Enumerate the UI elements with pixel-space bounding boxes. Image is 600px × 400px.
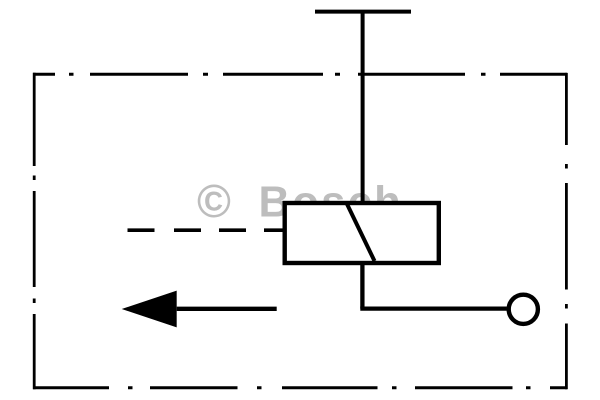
output terminal circle xyxy=(509,295,538,324)
wire from terminal bar down to switch box xyxy=(361,12,365,203)
watermark © Bosch xyxy=(197,175,403,227)
wire horizontal to output terminal xyxy=(360,306,507,310)
direction arrow (flow direction) xyxy=(122,291,277,328)
control dashed line xyxy=(128,228,285,232)
switch actuator diagonal xyxy=(347,204,375,261)
enclosure outline right side (dash-dot) xyxy=(565,73,568,389)
enclosure outline top side (dash-dot) xyxy=(33,73,567,76)
svg-text:©: © xyxy=(197,175,231,227)
switch box xyxy=(285,203,439,263)
terminal bar (supply terminal) xyxy=(315,10,411,14)
enclosure outline left side (dash-dot) xyxy=(33,73,36,389)
enclosure outline bottom side (dash-dot) xyxy=(33,386,567,389)
wire from switch box bottom xyxy=(360,263,364,309)
